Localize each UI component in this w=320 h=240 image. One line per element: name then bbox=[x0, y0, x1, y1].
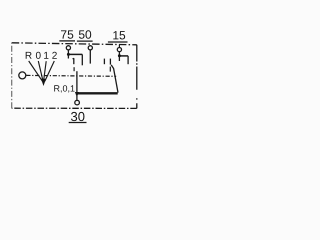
svg-text:15: 15 bbox=[112, 28, 126, 42]
svg-text:R,0,1: R,0,1 bbox=[53, 83, 75, 93]
svg-text:50: 50 bbox=[78, 28, 92, 42]
svg-text:R: R bbox=[25, 51, 32, 62]
svg-text:75: 75 bbox=[60, 28, 74, 42]
svg-text:0: 0 bbox=[36, 51, 42, 62]
svg-text:1: 1 bbox=[43, 51, 49, 62]
svg-text:30: 30 bbox=[71, 109, 85, 124]
svg-text:2: 2 bbox=[52, 51, 58, 62]
